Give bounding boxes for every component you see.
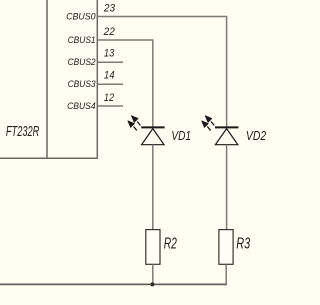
svg-text:12: 12: [104, 92, 114, 104]
pin stub 12 CBUS4: [97, 105, 123, 107]
wire R3 to bottom rail: [225, 264, 227, 284]
IC U1 FT232R box right edge: [96, 0, 98, 158]
svg-text:VD2: VD2: [246, 128, 267, 143]
wire CBUS1 vertical down to VD1: [152, 40, 154, 128]
FT232R box bottom edge: [0, 157, 98, 159]
svg-text:R2: R2: [164, 236, 177, 253]
pin stub 13 CBUS2: [97, 61, 123, 63]
svg-text:CBUS0: CBUS0: [66, 12, 96, 22]
wire VD2 to R3: [226, 145, 228, 230]
LED VD2: [202, 116, 239, 145]
wire CBUS0 pin 23 horizontal to VD2 column: [97, 16, 227, 18]
FT232R box inner divider: [46, 0, 48, 158]
svg-text:22: 22: [103, 26, 115, 38]
wire bottom rail: [0, 283, 227, 285]
svg-text:CBUS1: CBUS1: [68, 35, 96, 45]
svg-text:CBUS3: CBUS3: [68, 79, 97, 89]
pin stub 14 CBUS3: [97, 83, 123, 85]
wire R2 to bottom rail: [152, 264, 154, 284]
wire VD1 to R2: [152, 145, 154, 230]
resistor R2: [146, 230, 160, 265]
svg-text:14: 14: [104, 70, 115, 82]
wire CBUS1 pin 22 horizontal to VD1 column: [97, 39, 153, 41]
LED VD1: [128, 116, 165, 145]
wire CBUS0 vertical down to VD2: [226, 17, 228, 128]
svg-text:CBUS2: CBUS2: [68, 57, 97, 67]
svg-text:CBUS4: CBUS4: [67, 101, 96, 111]
svg-text:13: 13: [104, 47, 114, 59]
svg-text:FT232R: FT232R: [6, 124, 39, 140]
junction dot: [150, 282, 154, 286]
svg-text:23: 23: [103, 3, 115, 15]
svg-text:VD1: VD1: [171, 128, 191, 143]
resistor R3: [219, 230, 233, 265]
svg-text:R3: R3: [236, 236, 250, 253]
